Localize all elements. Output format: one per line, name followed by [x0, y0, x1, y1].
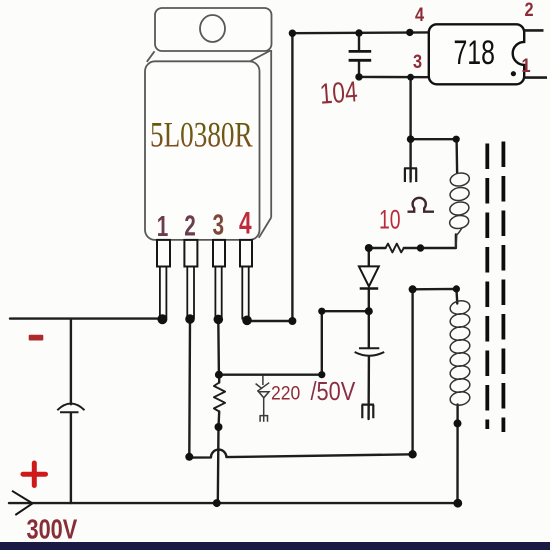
- svg-text:1: 1: [522, 55, 531, 77]
- svg-text:104: 104: [319, 74, 359, 110]
- svg-text:2: 2: [525, 0, 534, 20]
- svg-text:4: 4: [239, 205, 252, 241]
- svg-text:1: 1: [157, 211, 169, 243]
- svg-text:3: 3: [213, 209, 225, 241]
- svg-text:3: 3: [413, 51, 422, 73]
- svg-text:4: 4: [415, 4, 424, 26]
- svg-text:5L0380R: 5L0380R: [150, 115, 253, 155]
- svg-text:10: 10: [379, 204, 401, 234]
- svg-text:300V: 300V: [27, 515, 78, 545]
- svg-text:/50V: /50V: [311, 379, 356, 407]
- svg-text:220: 220: [271, 381, 300, 403]
- svg-text:2: 2: [184, 210, 196, 242]
- svg-text:718: 718: [454, 34, 495, 72]
